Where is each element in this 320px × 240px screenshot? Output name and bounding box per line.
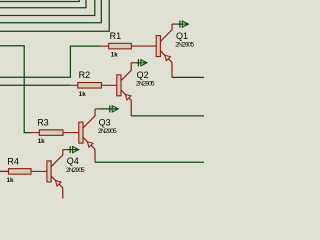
svg-text:1k: 1k [38,138,45,145]
svg-text:1k: 1k [7,177,14,184]
svg-text:2N2905: 2N2905 [136,81,155,88]
wire net3 (top-left nest) [0,0,95,16]
svg-text:1k: 1k [79,91,86,98]
transistor Q2 (2N2905) [117,75,121,96]
wire to R3 (from left edge) [0,46,31,133]
logic probe 3 [95,108,99,110]
transistor Q4 (2N2905) [47,161,51,182]
svg-text:R4: R4 [7,156,19,166]
wire Q4 emitter down [62,188,64,199]
resistor R4 [0,170,8,172]
svg-text:R2: R2 [79,70,91,80]
wire net4 (top-left nest) [0,0,101,23]
wire net2 (top-left nest) [0,0,86,8]
wire to R2 (from left edge) [0,84,69,86]
svg-text:Q4: Q4 [67,156,79,166]
wire net1 (top-left nest) [0,0,79,2]
svg-text:2N2905: 2N2905 [175,42,194,49]
transistor Q1 (2N2905) [156,36,160,57]
wire net5 (top-left nest) [0,0,109,31]
svg-text:R1: R1 [110,31,122,41]
logic probe 2 [131,62,135,64]
resistor R1 [100,45,109,47]
svg-text:2N2905: 2N2905 [66,167,85,174]
resistor R2 [69,84,78,86]
svg-text:Q1: Q1 [176,31,188,41]
wire Q1 emitter to right edge [172,76,204,78]
wire Q2 emitter to right edge [131,115,204,117]
logic probe 1 [172,23,176,25]
wire to R1 (from left edge) [0,46,100,77]
svg-text:R3: R3 [37,117,49,127]
svg-text:Q3: Q3 [99,117,111,127]
svg-text:2N2905: 2N2905 [98,128,117,135]
logic probe 4 [63,149,67,151]
wire R4 to left edge [0,170,9,172]
transistor Q3 (2N2905) [79,122,83,143]
svg-text:Q2: Q2 [137,70,149,80]
wire Q3 emitter to right edge [95,161,204,163]
resistor R3 [30,132,39,134]
svg-text:1k: 1k [111,52,118,59]
